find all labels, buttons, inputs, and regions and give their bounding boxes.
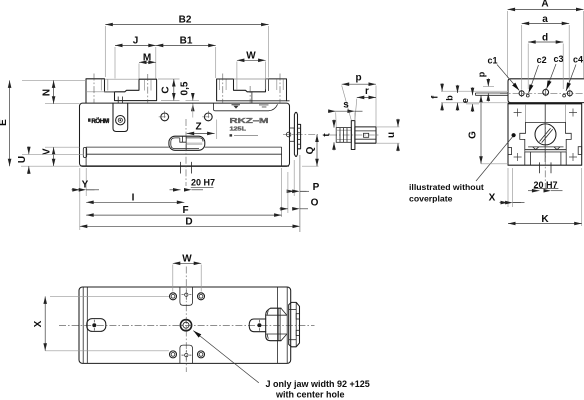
dimension p detail bbox=[342, 73, 376, 127]
svg-text:U: U bbox=[17, 156, 28, 163]
callout c1 bbox=[488, 56, 520, 91]
hole c1 in plate bbox=[519, 90, 524, 97]
spindle end cap bottom view bbox=[289, 302, 300, 346]
handle slot bbox=[169, 136, 205, 150]
dimension W bottom bbox=[173, 254, 201, 292]
svg-text:20 H7: 20 H7 bbox=[191, 178, 215, 188]
dimension Q bbox=[302, 135, 319, 167]
dimension e bbox=[460, 87, 479, 112]
svg-text:F: F bbox=[182, 205, 188, 216]
label 20 H7 front bbox=[170, 178, 216, 190]
dimension N bbox=[42, 80, 80, 103]
svg-text:O: O bbox=[311, 198, 319, 209]
right jaw bbox=[217, 74, 290, 104]
dimension B2 bbox=[105, 15, 268, 78]
dimension B1 bbox=[156, 36, 216, 79]
svg-text:125L: 125L bbox=[230, 126, 247, 132]
dimension W front bbox=[237, 51, 266, 90]
svg-text:B1: B1 bbox=[180, 36, 193, 47]
small hole right bbox=[563, 94, 566, 97]
dimension X side view bbox=[489, 168, 525, 207]
svg-text:X: X bbox=[33, 320, 44, 327]
dimension O bbox=[280, 155, 319, 232]
center hole with leader bbox=[180, 319, 192, 331]
svg-text:Q: Q bbox=[305, 146, 316, 154]
svg-text:c3: c3 bbox=[554, 54, 564, 64]
svg-text:c2: c2 bbox=[537, 55, 547, 65]
svg-text:s: s bbox=[343, 100, 349, 111]
dimension K bbox=[508, 168, 582, 226]
left slot bbox=[87, 319, 106, 332]
dimension r detail bbox=[355, 86, 376, 120]
spindle nut bottom view bbox=[266, 308, 287, 341]
spindle end at right of body bbox=[283, 112, 318, 156]
svg-text:B2: B2 bbox=[179, 15, 192, 26]
lower holes bbox=[170, 351, 205, 358]
bottom view center lines bbox=[59, 267, 315, 373]
svg-text:illustrated without: illustrated without bbox=[409, 182, 484, 192]
lower tab notch bbox=[180, 345, 193, 363]
svg-text:E: E bbox=[0, 119, 9, 126]
spindle hex end bbox=[355, 127, 376, 143]
svg-text:M: M bbox=[143, 53, 151, 64]
hole c3 in plate bbox=[543, 88, 549, 96]
dimension Z bbox=[187, 120, 217, 140]
spindle collar bbox=[351, 121, 355, 150]
logo Röhm on body bbox=[88, 116, 109, 125]
dimension t bbox=[322, 120, 335, 151]
svg-text:RÖHM: RÖHM bbox=[91, 116, 109, 125]
side tenon slot 20H7 bbox=[528, 120, 563, 191]
dimension P bbox=[288, 160, 320, 196]
svg-text:C: C bbox=[160, 86, 171, 93]
dimension u bbox=[377, 119, 400, 152]
dimension E bbox=[0, 80, 86, 166]
svg-text:a: a bbox=[542, 14, 548, 25]
face hole left bbox=[159, 111, 171, 123]
dimension b bbox=[445, 85, 458, 111]
svg-text:G: G bbox=[468, 131, 479, 139]
cover band on body top bbox=[214, 103, 278, 111]
callout c3 bbox=[547, 54, 564, 89]
tenon slot 20H7 front bbox=[181, 119, 192, 186]
central housing bbox=[520, 104, 571, 165]
svg-text:coverplate: coverplate bbox=[409, 194, 453, 204]
svg-text:Z: Z bbox=[195, 122, 201, 133]
dimension D bbox=[80, 155, 300, 232]
svg-text:t: t bbox=[322, 133, 333, 137]
dimension V bbox=[42, 147, 80, 166]
svg-text:c1: c1 bbox=[488, 56, 498, 66]
svg-text:p: p bbox=[355, 73, 361, 84]
central bore bbox=[535, 124, 556, 145]
note text illustrated without coverplate bbox=[409, 182, 484, 204]
fixed jaw bracket with screw bbox=[113, 97, 128, 132]
dimension X bottom bbox=[33, 296, 169, 350]
svg-text:c4: c4 bbox=[573, 55, 583, 65]
svg-text:X: X bbox=[489, 192, 496, 203]
svg-text:b: b bbox=[445, 95, 455, 101]
note J only jaw width bbox=[266, 379, 370, 400]
svg-text:d: d bbox=[542, 33, 548, 44]
svg-text:J: J bbox=[133, 36, 139, 47]
svg-text:p: p bbox=[476, 71, 486, 77]
dimension F bbox=[86, 168, 281, 217]
RKZ-M type label bbox=[230, 116, 269, 137]
dimension M bbox=[139, 53, 156, 79]
bottom view body outline bbox=[79, 287, 291, 363]
dimension f bbox=[429, 83, 442, 111]
left jaw bbox=[86, 74, 157, 104]
svg-text:0,5: 0,5 bbox=[179, 81, 190, 95]
dimension a bbox=[522, 14, 570, 89]
svg-text:N: N bbox=[42, 89, 53, 96]
svg-text:J only jaw width 92 +125: J only jaw width 92 +125 bbox=[266, 379, 370, 389]
svg-text:r: r bbox=[365, 86, 369, 97]
svg-text:Y: Y bbox=[82, 179, 89, 190]
svg-text:A: A bbox=[541, 0, 548, 9]
upper tab notch bbox=[180, 287, 193, 305]
callout c2 bbox=[529, 55, 547, 93]
svg-text:K: K bbox=[541, 214, 549, 225]
svg-text:W: W bbox=[182, 254, 192, 265]
svg-text:e: e bbox=[460, 98, 470, 103]
dimension s detail bbox=[328, 100, 363, 128]
hole c4 in plate bbox=[567, 90, 572, 97]
right slot bbox=[249, 319, 266, 332]
upper holes W bbox=[170, 293, 205, 300]
spindle threaded shaft bbox=[336, 128, 351, 143]
dimension J bbox=[115, 36, 156, 79]
spindle centerline bbox=[330, 134, 379, 136]
spindle rod sticking left bbox=[441, 91, 508, 102]
front view body bbox=[80, 103, 290, 166]
coverplate edge view bbox=[500, 79, 584, 103]
svg-text:u: u bbox=[386, 132, 397, 138]
dimension U bbox=[17, 147, 83, 175]
callout c4 bbox=[566, 55, 583, 92]
face hole right bbox=[202, 111, 214, 123]
svg-text:RKZ–M: RKZ–M bbox=[230, 116, 269, 125]
hole c2 in plate bbox=[526, 94, 529, 97]
svg-text:W: W bbox=[246, 51, 256, 62]
svg-text:with center hole: with center hole bbox=[275, 390, 345, 400]
dimension C bbox=[158, 79, 180, 101]
dimension p side bbox=[476, 71, 494, 101]
leader J note bbox=[193, 331, 258, 383]
dimension Y bbox=[72, 168, 100, 230]
dimension d bbox=[528, 33, 563, 89]
side body block bbox=[508, 103, 582, 165]
dimension A bbox=[508, 0, 584, 78]
dimension G bbox=[468, 95, 509, 164]
dimension I bbox=[86, 192, 184, 203]
dimension 0,5 bbox=[179, 81, 199, 117]
svg-text:P: P bbox=[313, 182, 320, 193]
svg-text:f: f bbox=[429, 95, 439, 99]
corner bolt crosses bbox=[514, 109, 577, 162]
illustrated-without dot and leader bbox=[476, 133, 516, 181]
svg-text:I: I bbox=[132, 192, 135, 203]
svg-text:D: D bbox=[185, 217, 192, 228]
